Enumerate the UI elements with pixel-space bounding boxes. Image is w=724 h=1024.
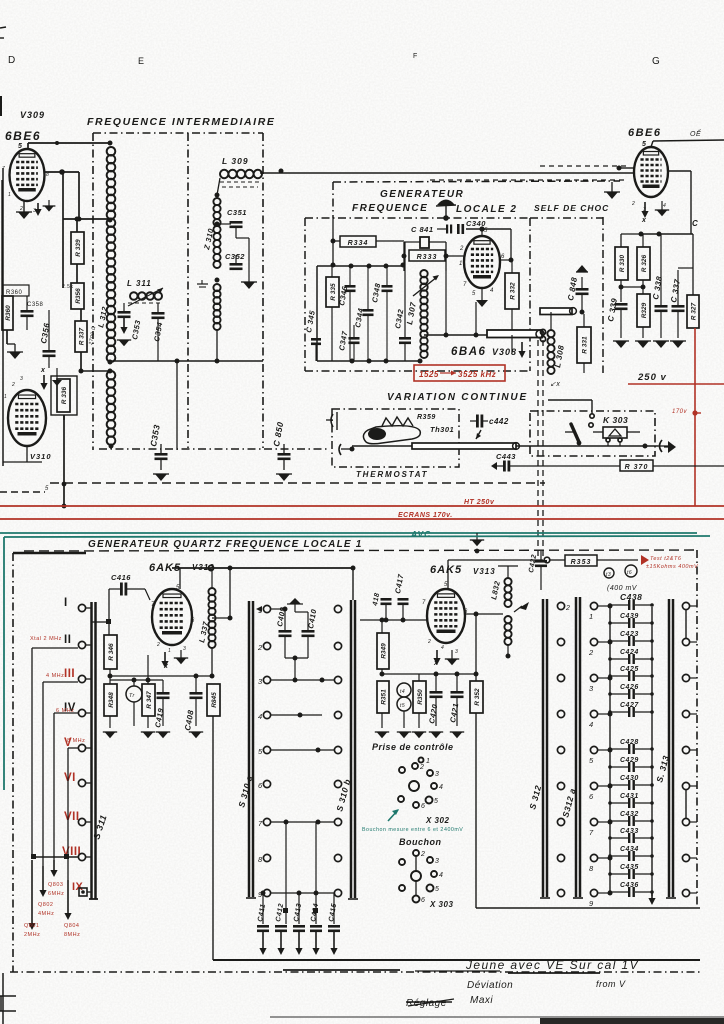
svg-text:Prise de contrôle: Prise de contrôle [372,742,454,752]
400mV note [607,585,638,592]
tube V309 pin 5 label [18,143,22,150]
capacitor C347 label [337,330,349,352]
svg-text:2MHz: 2MHz [24,932,40,938]
grid letter F [413,53,417,60]
arrow below V312 [161,652,169,670]
svg-text:250 v: 250 v [637,372,667,383]
ground row below C338 [653,341,669,348]
ground row below C337 [670,341,686,348]
wire S312 row 8 [598,856,613,861]
wire node y219 [63,217,113,223]
red node 170v [672,409,701,416]
svg-text:4MHz: 4MHz [38,911,54,917]
svg-text:4: 4 [663,203,666,209]
node C label [692,219,698,228]
tube V309 label [20,110,45,120]
svg-text:Déviation: Déviation [467,980,513,991]
capacitor C413 [293,925,305,955]
svg-text:R334: R334 [348,240,369,247]
capacitor C409 label [275,606,287,628]
S312 left contacts [557,602,570,896]
thermostat plug left [326,412,337,430]
svg-text:R359: R359 [417,414,436,421]
tube V313 pins [422,582,468,655]
svg-text:GENERATEUR QUARTZ FREQUENC: GENERATEUR QUARTZ FREQUENCE LOCALE 1 [88,539,363,550]
capacitor C425 label [620,666,639,673]
svg-text:5: 5 [484,228,488,234]
svg-text:4: 4 [589,720,594,729]
svg-text:9: 9 [589,899,594,908]
dashed separator [0,483,545,492]
svg-text:E: E [138,56,144,66]
svg-text:C443: C443 [496,452,516,461]
capacitor C426 [608,689,654,699]
wire C416 drop [92,589,111,635]
svg-text:C438: C438 [620,592,642,602]
svg-text:2: 2 [257,643,263,652]
tube V309 [10,149,45,201]
wire L309 left down [215,178,221,198]
capacitor C422 [535,551,547,590]
coil L307 label [405,301,418,325]
S313 contacts [682,602,697,896]
capacitor C433 [608,833,654,843]
capacitor C431 label [620,793,639,800]
gen1 title [88,539,363,550]
wire drop C412 [283,822,288,924]
capacitor C428 [608,744,654,754]
svg-text:t6: t6 [627,570,632,576]
connector X302 [398,758,443,811]
red bus ECRANS 170v [0,518,724,520]
underline jeune [283,970,600,973]
switch S310b label [334,778,352,813]
terminal V [64,737,86,752]
thermostat label Th301 [430,425,454,434]
capacitor C410 [295,612,315,658]
svg-text:VI: VI [64,772,76,784]
capacitor C850 label [271,421,285,448]
S310a contact 2 [257,642,271,652]
capacitor C419 label [153,707,165,729]
capacitor C344 [363,266,374,361]
wire row7 [271,820,334,825]
grid letter G [652,56,660,67]
ground below C419 [156,732,170,738]
capacitor C432 label [620,811,639,818]
resistor R370 [528,460,724,471]
svg-text:R 331: R 331 [581,336,588,354]
resistor R327 [687,234,699,328]
handwritten jeune avec [465,958,639,972]
arrow below tube V2 [641,202,649,224]
tube V312 [152,589,192,645]
wire Z310 bottom [215,330,220,364]
capacitor C420 [430,674,443,726]
svg-text:↙x: ↙x [550,381,560,388]
resistor R346 [104,635,117,684]
tube V310 pins [4,376,49,492]
thermistor Tr347 [126,680,142,726]
capacitor C337 label [669,278,682,303]
wire S312 row 7 [598,820,613,825]
capacitor C438 label [620,592,642,602]
capacitor C443 [491,461,528,472]
FI box top border [93,132,263,134]
terminal VI [64,772,86,787]
left rail [1,180,3,310]
resistor R347 [142,655,155,728]
switch S312a bar [573,597,583,898]
capacitor C434 label [620,846,639,853]
capacitor C348 label [370,282,382,304]
ground below t5 [397,732,411,738]
capacitor C423 label [620,631,639,638]
arrow below V309 [34,200,55,216]
capacitor C430 [608,780,654,790]
ground right of K303 [664,441,676,453]
resistor R336 [51,376,77,420]
terminal II [64,634,86,649]
wire y335 bus [424,271,488,338]
svg-text:400mV: 400mV [444,827,463,833]
svg-text:C352: C352 [225,252,245,261]
ground below R348 [103,732,117,738]
svg-text:2: 2 [419,764,424,771]
svg-text:V310: V310 [30,452,52,461]
resistor R333 [402,242,449,271]
tube 6BA6 label [451,346,517,358]
svg-text:7: 7 [589,828,594,837]
tube V309 pin stubs [2,166,49,214]
gen1 frame right [696,550,698,906]
mech link dashed [538,340,543,556]
thermostat label R359 [417,414,436,421]
svg-text:2: 2 [427,639,431,645]
svg-text:2: 2 [588,648,594,657]
left margin mark [0,27,6,116]
terminal IX [72,881,87,896]
resistor R345 [207,684,220,960]
svg-text:3: 3 [435,771,439,778]
wire L337 bottom [210,648,215,679]
svg-text:3: 3 [589,684,594,693]
S310a contact 3 [258,676,271,686]
capacitor C411 label [257,903,267,922]
wire tube V2 right [668,171,691,234]
coil L308 [547,312,554,374]
K303 box [530,411,655,456]
svg-text:Bouchon mesure entre 6 et 2: Bouchon mesure entre 6 et 2 [362,827,444,833]
arrow Q802 [39,866,46,897]
tube V310 [8,390,46,446]
ground below V312 [174,650,188,664]
capacitor C351 [217,221,249,238]
capacitor C413 label [293,903,303,923]
cap ladder left rail [609,607,611,893]
svg-text:C 841: C 841 [411,225,434,234]
svg-text:8MHz: 8MHz [64,932,80,938]
svg-text:c442: c442 [489,417,509,426]
coil L311 label [127,279,152,288]
svg-text:GENERATEUR: GENERATEUR [380,189,464,200]
capacitor C427 label [620,702,639,709]
wire VI to S311 [86,782,91,784]
wire I to S311 [86,607,91,609]
svg-text:170v: 170v [672,409,688,415]
capacitor C417 [398,598,409,620]
S310a contact 1 [258,605,271,615]
bottom left bracket [0,996,16,1011]
tube V309 type 6BE6 [5,129,41,143]
ground below V313 [445,650,459,665]
svg-text:8: 8 [258,855,263,864]
gen2 inner border [317,266,423,364]
teal bus AVC [0,532,697,534]
tube V2 bottom pins [631,201,666,213]
capacitor C340 [437,224,511,234]
wire II to S311 [86,644,91,646]
capacitor C429 [608,762,654,772]
capacitor C340 label [466,219,486,228]
wire drop C413 [298,893,300,924]
svg-text:x: x [40,367,46,374]
gen2 title left border [332,182,334,218]
svg-text:C340: C340 [466,219,486,228]
svg-text:R356: R356 [75,288,82,304]
teal note bouchon mesure [362,827,463,833]
top bus gen1 [172,565,354,570]
capacitor C408 label [183,709,196,731]
capacitor C339 [615,303,628,338]
t3 circle [604,568,614,578]
wire row5 [271,748,334,753]
capacitor C347 [349,325,360,361]
coil L311 [128,288,163,306]
thermostat bimetal [363,417,420,444]
S310a contact 7 [258,818,271,828]
svg-text:L 309: L 309 [222,156,249,166]
arrow Q801 [28,860,35,930]
resistor R334 [333,236,404,247]
switch S310a label [236,774,254,808]
wire R330 lead [621,234,641,247]
S312 right contacts [588,602,598,908]
svg-text:VII: VII [64,811,80,823]
capacitor C356 [39,310,55,368]
svg-text:7: 7 [422,600,426,606]
svg-text:1: 1 [168,648,171,654]
connector X303 [399,850,443,904]
coil Z310 label [202,227,216,251]
capacitor C426 label [620,684,639,691]
red test arrow [641,555,649,565]
resistor R326 [637,234,650,294]
junction into grid [617,166,636,171]
svg-text:K 303: K 303 [603,415,628,425]
tube V2 pin5 label [642,141,646,148]
wire L309 to right tube [260,169,634,174]
coil L312 label [96,305,109,328]
arrow above V310 [40,367,62,390]
coil Z310 winding upper [213,198,220,268]
svg-text:2.5k: 2.5k [62,284,73,290]
capacitor C345 label [304,309,317,333]
svg-text:R349: R349 [380,643,387,659]
svg-text:Maxi: Maxi [470,995,493,1006]
coil L308 label [553,344,566,368]
coil L332 lower [504,616,511,659]
wire L332 top [498,566,518,578]
capacitor C416 label [111,573,131,582]
svg-text:4 MHz: 4 MHz [46,673,64,679]
svg-text:6BE6: 6BE6 [5,129,41,143]
capacitor C417 label [393,573,405,595]
teal box left [3,537,5,790]
capacitor C438 [608,600,654,610]
wire V313 pin6 [464,613,503,615]
svg-text:6BE6: 6BE6 [628,127,662,139]
wire row1 right [271,607,288,612]
resistor R331 [577,314,591,373]
ground below R347 [141,732,155,738]
wire R337 to coil [81,370,111,372]
switch S312b bar [540,599,550,898]
red label Q801 [24,923,40,938]
capacitor C420 label [427,703,439,725]
svg-text:V313: V313 [473,567,496,576]
text 250v [637,372,667,383]
text prise de controle [372,742,454,752]
svg-text:4: 4 [439,784,443,791]
wire L337 tap [212,568,233,621]
switch S311 label [91,813,108,840]
wire V left [68,748,78,880]
wire drop C411 [261,891,266,925]
x mark shaft [550,381,560,388]
svg-text:R348: R348 [108,692,115,708]
wire grid row V313 [360,618,427,623]
tube V312 pins [151,585,195,654]
FI box bottom border [99,448,330,450]
tube V2 6BE6 [634,147,668,197]
svg-text:II: II [64,634,71,646]
svg-text:3: 3 [258,677,263,686]
capacitor C351 label [227,208,247,217]
tube V2 6BE6 label [628,127,662,139]
arrow into S310a row1 [256,606,262,612]
wire S310b top [351,566,356,601]
svg-text:D: D [8,55,15,66]
svg-text:3525 kHz: 3525 kHz [458,370,496,379]
wire drop C414 [313,822,318,924]
svg-text:2: 2 [420,851,425,858]
svg-text:R353: R353 [571,559,592,566]
bottom bus gen1 [213,959,700,961]
thermistor t4 [397,683,411,697]
ground row below R330 [613,341,629,348]
switch S312a label [560,787,577,819]
svg-text:Tr: Tr [129,693,135,699]
svg-text:R 337: R 337 [78,327,85,345]
red label Xtal 2MHz [30,636,62,642]
coil L337 [208,571,215,648]
capacitor C338 [655,234,668,338]
S310a contact 8 [258,854,271,864]
handwritten from V [596,979,626,989]
capacitor C412 label [275,903,285,923]
capacitor C419 [157,680,170,726]
resistor R353 [544,555,638,566]
capacitor C352 label [225,252,245,261]
FI box right border [262,133,264,448]
svg-text:7: 7 [463,282,467,288]
svg-text:R 339: R 339 [75,239,82,257]
resistor R356 [62,283,84,309]
capacitor c442 label [489,417,509,426]
gen2 title top border [333,181,620,182]
capacitor C408 [190,676,203,726]
wire row4 [271,713,322,718]
svg-text:4: 4 [441,645,444,651]
cap ladder bottom arrow [648,893,655,905]
svg-text:6: 6 [421,803,425,810]
svg-text:2: 2 [631,201,635,207]
coil L307 [413,270,439,358]
capacitor C421 label [448,702,460,723]
gen2 title [352,189,517,215]
long shaft bar [352,443,519,450]
coil L309 [220,170,262,187]
thermostat lower contact [339,444,355,455]
S313 jumper top [685,610,687,638]
wire V308 pin top [481,229,483,236]
grid letter D [8,55,15,66]
svg-text:R351: R351 [380,689,387,705]
capacitor c442 [470,415,488,440]
svg-text:7: 7 [258,819,263,828]
ground row below R329 [635,341,651,348]
ground below C421 [450,732,464,738]
svg-text:1: 1 [426,758,430,765]
wire VII to S311 [86,821,91,823]
gen1 frame bottom [10,971,700,973]
wire S312 row 9 [598,891,613,896]
capacitor C352 [230,238,250,276]
ground below C408 [189,732,203,738]
ground below R350 [412,732,426,738]
red label Q803 [48,882,64,897]
capacitor C411 [257,925,269,955]
svg-text:Th301: Th301 [430,425,454,434]
resistor R360 box label [3,285,29,296]
svg-text:R 326: R 326 [641,254,648,272]
red freq range box [414,365,505,381]
svg-text:Xtal 2 MHz: Xtal 2 MHz [30,636,62,642]
arrow Q804 [64,880,71,920]
capacitor C423 [608,636,654,646]
capacitor C348 [382,266,393,361]
wire IV left [54,713,78,860]
svg-text:6MHz: 6MHz [48,891,64,897]
wire drop x64 [62,415,67,508]
ground below tube V2 [655,201,669,216]
capacitor C409 [279,609,292,658]
wire V309 pin8 right [44,169,82,288]
capacitor C358 [21,296,44,330]
capacitor C337 [672,268,694,338]
svg-text:1: 1 [4,394,7,400]
